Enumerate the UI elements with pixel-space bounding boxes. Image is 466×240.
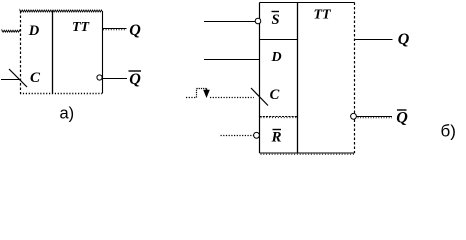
svg-text:Q: Q [129, 22, 141, 39]
svg-text:а): а) [60, 105, 75, 123]
svg-text:C: C [30, 70, 41, 86]
svg-text:C: C [270, 87, 280, 103]
svg-text:Q: Q [398, 31, 410, 48]
svg-text:D: D [28, 23, 40, 39]
svg-text:Q: Q [396, 110, 408, 127]
svg-text:TT: TT [72, 20, 91, 35]
svg-text:R: R [270, 130, 281, 146]
svg-text:S: S [271, 12, 279, 28]
svg-text:D: D [270, 50, 281, 65]
svg-text:б): б) [441, 122, 456, 141]
svg-text:TT: TT [313, 8, 332, 23]
svg-text:Q: Q [129, 71, 141, 88]
